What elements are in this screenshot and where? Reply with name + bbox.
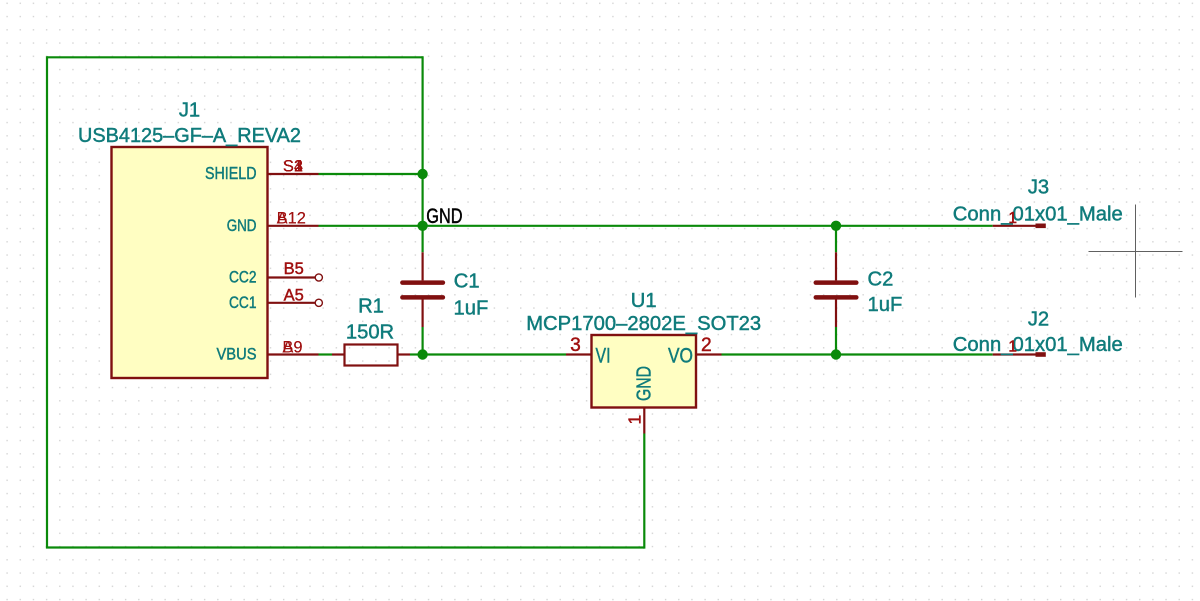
J1 pin CC2 open end [315,274,322,281]
svg-text:B12: B12 [277,210,306,228]
svg-text:C1: C1 [454,271,480,293]
J2 pin male bar [1036,352,1046,357]
J3 pin male bar [1036,224,1046,229]
junction GND left [417,221,427,231]
J1 pin CC1 open end [315,299,322,306]
C1 bottom plate [402,295,443,300]
svg-text:Conn_01x01_Male: Conn_01x01_Male [953,202,1123,225]
svg-text:CC2: CC2 [229,269,257,287]
wire VBUS to R1 [319,353,333,355]
connector J3 pin wire [993,225,1036,227]
J1 pin CC1 wire [268,302,316,304]
U1 pin 2 VO wire [696,353,722,355]
J1 pin numbers A9 B9 stacked [282,338,302,356]
capacitor C2 top pin [835,252,837,280]
C1 top plate [402,280,443,285]
svg-text:C2: C2 [868,269,894,291]
J1 pin numbers A12 B12 stacked [277,210,306,228]
svg-text:R1: R1 [358,296,384,318]
J1 pin SHIELD wire [268,173,319,175]
wire R1 to junction [410,353,423,355]
svg-text:GND: GND [426,204,462,228]
J1 pin numbers S1-S4 stacked [283,157,303,175]
wire outer loop right up to U1 pin 1 [643,434,645,549]
capacitor C1 top pin [422,252,424,280]
svg-text:150R: 150R [346,322,394,344]
svg-text:VI: VI [596,344,611,367]
wire outer loop left [46,56,48,547]
C2 bottom pin [835,300,837,328]
junction VOUT right [831,349,841,359]
R1 pin left [332,353,345,355]
svg-text:1uF: 1uF [868,294,903,316]
wire vertical GND bus x=422.6 [422,56,424,252]
junction VBUS left [417,349,427,359]
wire outer loop bottom [46,546,644,548]
U1 pin 3 VI wire [566,353,592,355]
connector J2 pin wire [993,353,1036,355]
connector J1 body [112,147,268,378]
cursor crosshair vertical [1135,205,1137,298]
svg-text:A5: A5 [284,286,304,304]
svg-text:VO: VO [668,344,693,367]
resistor R1 body [345,345,398,366]
wire U1 VO to J2 [722,353,993,355]
wire GND horizontal to J3 [319,225,993,227]
R1 pin right [398,353,411,355]
wire SHIELD to vertical [319,173,423,175]
svg-text:CC1: CC1 [229,294,257,312]
C2 top plate [816,280,857,285]
svg-text:2: 2 [701,335,712,356]
svg-text:1: 1 [1008,210,1017,227]
svg-text:USB4125–GF–A_REVA2: USB4125–GF–A_REVA2 [78,125,301,147]
regulator U1 body [592,335,697,408]
svg-text:1uF: 1uF [454,298,489,320]
svg-text:U1: U1 [631,290,657,312]
svg-text:VBUS: VBUS [217,346,257,364]
svg-text:MCP1700–2802E_SOT23: MCP1700–2802E_SOT23 [526,313,761,335]
cursor crosshair horizontal [1089,251,1183,253]
svg-text:J2: J2 [1028,309,1049,331]
svg-text:SHIELD: SHIELD [205,163,257,183]
J1 pin CC2 wire [268,276,316,278]
svg-text:Conn_01x01_Male: Conn_01x01_Male [953,333,1123,356]
svg-text:B5: B5 [284,260,304,278]
wire C2 bottom to junction [835,327,837,355]
C2 bottom plate [816,295,857,300]
wire C1 bottom to junction [422,327,424,355]
wire GND-net outer loop top [47,56,423,58]
J1 pin VBUS wire [268,353,319,355]
svg-text:J3: J3 [1028,177,1049,199]
wire junction to U1 VI [423,353,566,355]
wire C2 top [835,226,837,253]
svg-text:GND: GND [227,217,257,235]
svg-text:S4: S4 [283,157,303,175]
svg-text:J1: J1 [179,100,200,122]
svg-text:1: 1 [1008,339,1017,356]
U1 pin 1 GND wire [643,408,645,434]
C1 bottom pin [422,300,424,328]
J1 pin GND wire [268,225,319,227]
svg-text:3: 3 [570,335,581,356]
svg-text:1: 1 [625,415,645,425]
svg-text:B9: B9 [282,338,302,356]
svg-text:GND: GND [633,366,656,401]
junction at shield [417,169,427,179]
junction GND right [831,221,841,231]
